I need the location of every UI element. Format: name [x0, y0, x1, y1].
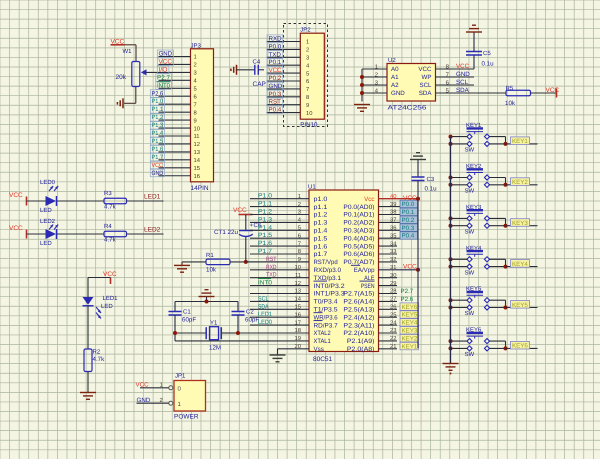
svg-text:p1.6: p1.6: [314, 243, 328, 250]
svg-text:C5: C5: [483, 50, 491, 57]
svg-text:p1.0: p1.0: [314, 196, 328, 203]
svg-text:VCC: VCC: [9, 192, 23, 199]
svg-text:80C51: 80C51: [313, 356, 333, 363]
svg-text:T0/P3.4: T0/P3.4: [314, 299, 339, 306]
svg-text:4.7k: 4.7k: [104, 204, 117, 211]
svg-text:3: 3: [375, 80, 378, 87]
svg-text:GND: GND: [152, 170, 164, 177]
svg-text:U2: U2: [388, 57, 396, 64]
svg-text:SCL: SCL: [456, 79, 469, 86]
svg-text:KEY1: KEY1: [512, 138, 528, 145]
svg-text:P1.3: P1.3: [258, 216, 273, 223]
svg-text:P0.5(AD5): P0.5(AD5): [343, 243, 374, 250]
svg-text:P1.1: P1.1: [152, 106, 164, 113]
svg-text:P2.7: P2.7: [401, 288, 414, 295]
svg-text:JP1: JP1: [175, 373, 186, 380]
svg-text:PSEN: PSEN: [361, 283, 375, 290]
svg-text:6: 6: [194, 93, 197, 100]
svg-text:1: 1: [306, 40, 309, 46]
svg-text:Vss: Vss: [314, 346, 324, 353]
svg-text:TXD: TXD: [266, 272, 277, 279]
svg-text:GND: GND: [391, 90, 405, 97]
svg-text:18: 18: [295, 327, 301, 334]
svg-text:PIN10: PIN10: [300, 122, 318, 129]
svg-text:KEY4: KEY4: [512, 261, 528, 268]
svg-text:SW: SW: [465, 188, 475, 195]
svg-text:VCC: VCC: [546, 87, 560, 94]
svg-text:9: 9: [306, 102, 309, 109]
svg-text:P1.6: P1.6: [258, 240, 273, 247]
svg-text:KEY3: KEY3: [402, 328, 418, 335]
svg-text:P2.7: P2.7: [157, 74, 171, 81]
svg-text:INT0: INT0: [157, 82, 171, 89]
svg-text:SW: SW: [465, 228, 475, 235]
svg-text:SDA: SDA: [419, 90, 433, 97]
svg-text:P0.2(AD2): P0.2(AD2): [343, 220, 374, 227]
svg-text:SW: SW: [465, 269, 475, 276]
svg-text:p1.1: p1.1: [314, 204, 328, 211]
svg-text:19: 19: [295, 335, 301, 342]
svg-text:2: 2: [194, 62, 197, 69]
svg-text:1: 1: [194, 55, 197, 61]
svg-text:P0.1(AD1): P0.1(AD1): [343, 212, 374, 219]
svg-text:R2: R2: [93, 349, 101, 356]
svg-text:P1.2: P1.2: [152, 114, 164, 121]
svg-text:14: 14: [194, 158, 201, 164]
svg-text:RD/P3.7: RD/P3.7: [314, 322, 339, 329]
svg-text:P2.2(A10): P2.2(A10): [343, 330, 374, 337]
svg-text:VCC: VCC: [152, 162, 164, 169]
svg-text:VCC: VCC: [9, 225, 23, 232]
svg-text:SDA: SDA: [456, 87, 470, 94]
svg-text:GND: GND: [269, 83, 283, 90]
svg-text:KEY1: KEY1: [402, 343, 418, 350]
svg-text:P2.6: P2.6: [152, 90, 164, 97]
svg-text:P0.3(AD3): P0.3(AD3): [343, 228, 374, 235]
svg-text:WP: WP: [422, 74, 432, 81]
svg-text:P0.3: P0.3: [269, 91, 282, 98]
svg-text:LED: LED: [101, 303, 113, 310]
svg-text:12M: 12M: [209, 345, 221, 352]
svg-text:0.1u: 0.1u: [482, 61, 495, 68]
svg-text:10k: 10k: [206, 267, 217, 274]
svg-text:SW: SW: [465, 310, 475, 317]
svg-text:P0.4: P0.4: [402, 233, 415, 240]
svg-text:P1.4: P1.4: [258, 224, 273, 231]
svg-text:CT1 22u: CT1 22u: [214, 229, 239, 236]
svg-text:LED: LED: [40, 240, 52, 247]
svg-text:KEY6: KEY6: [512, 343, 528, 350]
svg-text:VCC: VCC: [403, 263, 417, 270]
svg-text:60pF: 60pF: [182, 317, 196, 324]
svg-text:13: 13: [194, 149, 200, 156]
svg-text:LED0: LED0: [40, 179, 56, 186]
svg-text:R4: R4: [104, 223, 112, 230]
svg-text:R5: R5: [506, 85, 514, 92]
svg-text:P0.1: P0.1: [269, 59, 282, 66]
svg-text:SDA: SDA: [258, 303, 269, 310]
svg-text:KEY5: KEY5: [402, 312, 418, 319]
svg-text:RXD: RXD: [269, 36, 283, 43]
svg-text:SCL: SCL: [258, 295, 269, 302]
svg-text:W1: W1: [123, 48, 133, 55]
svg-text:CAP: CAP: [253, 81, 266, 88]
svg-text:SCL: SCL: [419, 82, 432, 89]
svg-text:SW: SW: [465, 147, 475, 154]
svg-text:LED: LED: [40, 207, 52, 214]
svg-text:7: 7: [306, 87, 309, 93]
svg-text:P2.7(A15): P2.7(A15): [343, 291, 374, 298]
svg-text:15: 15: [194, 166, 200, 172]
svg-text:RST/Vpd: RST/Vpd: [314, 259, 339, 266]
svg-text:P1.2: P1.2: [258, 209, 273, 216]
svg-text:10: 10: [194, 125, 200, 132]
svg-text:P0.3: P0.3: [402, 225, 415, 232]
svg-text:P2.5(A13): P2.5(A13): [343, 307, 374, 314]
svg-text:KEY6: KEY6: [402, 304, 418, 311]
svg-text:4.7k: 4.7k: [93, 356, 106, 363]
svg-text:11: 11: [194, 134, 200, 140]
svg-text:A1: A1: [391, 74, 399, 81]
svg-text:RST: RST: [269, 99, 282, 106]
svg-text:P0.4: P0.4: [269, 107, 282, 114]
svg-text:C4: C4: [253, 59, 261, 66]
svg-text:P0.4(AD4): P0.4(AD4): [343, 235, 374, 242]
svg-text:RXD/p3.0: RXD/p3.0: [314, 267, 342, 274]
svg-text:P1.1: P1.1: [258, 201, 273, 208]
svg-text:KEY4: KEY4: [402, 320, 418, 327]
svg-text:KEY2: KEY2: [512, 179, 528, 186]
svg-text:P1.0: P1.0: [258, 193, 273, 200]
svg-text:KEY2: KEY2: [402, 335, 418, 342]
svg-text:SW: SW: [465, 351, 475, 358]
svg-text:AT24C256: AT24C256: [388, 105, 428, 112]
svg-text:KEY3: KEY3: [512, 220, 528, 227]
svg-text:POWER: POWER: [174, 414, 199, 421]
svg-text:P2.4(A12): P2.4(A12): [343, 314, 374, 321]
svg-text:p1.2: p1.2: [314, 212, 328, 219]
svg-text:10k: 10k: [505, 100, 516, 107]
svg-text:p1.4: p1.4: [314, 228, 328, 235]
svg-text:3: 3: [306, 55, 309, 62]
svg-text:20k: 20k: [116, 74, 127, 81]
svg-text:JP3: JP3: [191, 43, 202, 50]
svg-text:5: 5: [194, 87, 197, 93]
svg-text:P1.4: P1.4: [152, 130, 164, 137]
svg-text:XTAL1: XTAL1: [314, 338, 332, 345]
svg-text:VCC: VCC: [456, 63, 470, 70]
svg-text:KEY5: KEY5: [512, 302, 528, 309]
svg-text:VCC: VCC: [269, 67, 283, 74]
svg-text:5: 5: [306, 71, 309, 77]
svg-text:8: 8: [306, 94, 309, 101]
svg-text:P0.6(AD6): P0.6(AD6): [343, 251, 374, 258]
svg-text:RST: RST: [266, 256, 277, 263]
svg-text:R3: R3: [104, 190, 112, 197]
svg-text:RXD: RXD: [266, 264, 277, 271]
svg-text:P0.2: P0.2: [269, 75, 282, 82]
svg-text:P0.1: P0.1: [402, 209, 415, 216]
svg-text:0.1u: 0.1u: [425, 186, 438, 193]
svg-text:P0.0: P0.0: [402, 201, 415, 208]
svg-text:P1.0: P1.0: [152, 98, 164, 105]
svg-text:P2.3(A11): P2.3(A11): [343, 322, 374, 329]
svg-text:LED0: LED0: [258, 319, 272, 326]
svg-text:LED2: LED2: [40, 218, 56, 225]
svg-text:10: 10: [306, 110, 312, 117]
svg-text:GND: GND: [456, 71, 470, 78]
svg-text:EA/Vpp: EA/Vpp: [354, 267, 375, 274]
svg-text:16: 16: [194, 173, 200, 180]
svg-text:P1.7: P1.7: [152, 154, 164, 161]
svg-text:P0.0: P0.0: [269, 43, 282, 50]
svg-text:1: 1: [375, 65, 378, 71]
svg-text:INT0/P3.2: INT0/P3.2: [314, 283, 346, 290]
svg-text:P2.0(A8): P2.0(A8): [347, 346, 375, 353]
svg-text:VCC: VCC: [418, 66, 432, 73]
svg-text:LED1: LED1: [103, 295, 119, 302]
svg-text:P0.2: P0.2: [402, 217, 415, 224]
svg-text:C3: C3: [427, 176, 435, 183]
svg-text:P2.1(A9): P2.1(A9): [347, 338, 375, 345]
svg-text:TXD: TXD: [269, 51, 282, 58]
svg-text:2: 2: [306, 47, 309, 54]
svg-text:P1.5: P1.5: [152, 138, 164, 145]
svg-text:I/O: I/O: [159, 66, 168, 73]
svg-text:VCC: VCC: [233, 207, 247, 214]
svg-text:P2.6(A14): P2.6(A14): [343, 299, 374, 306]
svg-text:U1: U1: [308, 184, 316, 191]
svg-text:6: 6: [306, 78, 309, 85]
svg-text:P2.6: P2.6: [401, 296, 414, 303]
svg-text:XTAL2: XTAL2: [314, 330, 332, 337]
svg-text:P1.5: P1.5: [258, 232, 273, 239]
svg-text:4.7k: 4.7k: [104, 237, 117, 244]
svg-text:p1.7: p1.7: [314, 251, 328, 258]
svg-text:P1.3: P1.3: [152, 122, 164, 129]
svg-text:Vcc: Vcc: [364, 196, 374, 203]
svg-text:9: 9: [194, 117, 197, 124]
svg-text:14PIN: 14PIN: [191, 185, 209, 192]
svg-text:3: 3: [194, 70, 197, 77]
svg-text:LED2: LED2: [144, 227, 161, 234]
svg-text:P1.6: P1.6: [152, 146, 164, 153]
svg-text:R1: R1: [206, 252, 214, 259]
svg-text:GND: GND: [159, 51, 173, 58]
svg-text:A2: A2: [391, 82, 399, 89]
svg-text:LED1: LED1: [258, 311, 272, 318]
svg-text:2: 2: [375, 72, 378, 79]
svg-text:P1.7: P1.7: [258, 248, 273, 255]
svg-text:p1.3: p1.3: [314, 220, 328, 227]
svg-text:A0: A0: [391, 66, 399, 73]
svg-text:VCC: VCC: [159, 58, 173, 65]
svg-text:INT0: INT0: [258, 280, 273, 287]
svg-text:C1: C1: [183, 309, 191, 316]
svg-text:8: 8: [194, 109, 197, 116]
svg-text:INT1/P3.3: INT1/P3.3: [314, 291, 346, 298]
svg-text:p1.5: p1.5: [314, 235, 328, 242]
svg-text:P0.0(AD0): P0.0(AD0): [343, 204, 374, 211]
svg-text:7: 7: [194, 102, 197, 108]
svg-text:12: 12: [194, 141, 200, 148]
svg-text:LED1: LED1: [144, 194, 161, 201]
svg-text:JP2: JP2: [300, 27, 311, 34]
svg-text:Y1: Y1: [210, 320, 218, 327]
